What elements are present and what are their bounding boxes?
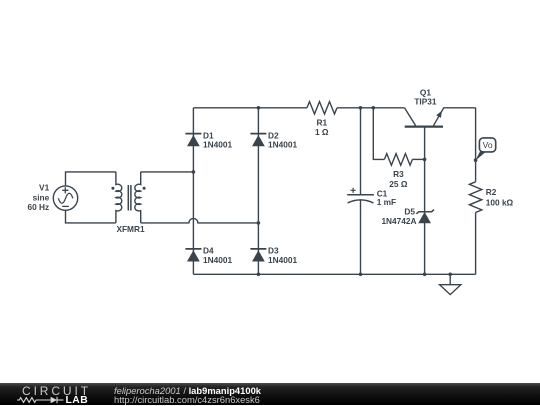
ground: [440, 274, 461, 294]
wire R2 to bottom rail: [475, 213, 477, 275]
svg-text:TIP31: TIP31: [414, 97, 437, 107]
wire secondary bottom with hop: [141, 218, 259, 223]
svg-text:R3: R3: [393, 169, 404, 179]
resistor R3: [384, 154, 412, 166]
wire bridge left vertical: [192, 108, 194, 274]
zener diode D5: [416, 210, 434, 224]
svg-text:100 kΩ: 100 kΩ: [486, 197, 514, 207]
wire right vertical to Vo: [475, 108, 477, 182]
wire top rail right: [337, 107, 405, 109]
svg-text:R2: R2: [486, 187, 497, 197]
node R3 base junction: [423, 158, 427, 162]
logo LAB: [66, 396, 89, 406]
logo schematic: [17, 396, 65, 404]
transistor Q1: [405, 108, 444, 160]
footer text line 1: [114, 385, 261, 396]
diode D4: [185, 249, 201, 262]
svg-text:1 mF: 1 mF: [377, 197, 396, 207]
wire top rail left: [193, 107, 307, 109]
diode D1: [185, 134, 201, 147]
diode D3: [250, 249, 266, 262]
wire bridge right vertical: [257, 108, 259, 274]
footer text line 2: [114, 394, 260, 405]
capacitor C1: [347, 108, 374, 274]
svg-text:D3: D3: [268, 245, 279, 255]
footer bar: [0, 383, 540, 405]
svg-text:1N4742A: 1N4742A: [381, 216, 416, 226]
node D5 bottom junction: [423, 273, 427, 277]
svg-text:1N4001: 1N4001: [268, 255, 297, 265]
node C1 bottom junction: [359, 273, 363, 277]
resistor R1: [307, 102, 337, 114]
node secondary bottom junction: [257, 221, 261, 225]
svg-text:Vo: Vo: [483, 140, 493, 150]
node D2 top junction: [257, 106, 261, 110]
node C1 top junction: [359, 106, 363, 110]
svg-text:1N4001: 1N4001: [203, 140, 232, 150]
wire R3 to base: [412, 158, 424, 160]
svg-text:1 Ω: 1 Ω: [315, 127, 329, 137]
wire V1 top: [66, 172, 116, 186]
voltage source V1: [53, 186, 77, 210]
svg-text:25 Ω: 25 Ω: [389, 179, 408, 189]
svg-text:1N4001: 1N4001: [203, 255, 232, 265]
svg-text:60 Hz: 60 Hz: [28, 202, 50, 212]
node D3 bottom junction: [257, 273, 261, 277]
wire emitter to top right: [443, 107, 475, 109]
node Vo junction: [474, 158, 478, 162]
transformer XFMR1: [111, 172, 145, 223]
svg-text:XFMR1: XFMR1: [116, 224, 145, 234]
node ground junction: [448, 273, 452, 277]
wire base down to D5: [424, 159, 426, 274]
wire bottom rail: [193, 273, 475, 275]
svg-text:V1: V1: [39, 182, 50, 192]
diode D2: [250, 134, 266, 147]
wire R3 branch: [373, 108, 384, 160]
svg-text:D4: D4: [203, 245, 214, 255]
logo CIRCUIT: [22, 385, 91, 397]
svg-text:1N4001: 1N4001: [268, 140, 297, 150]
flag Vo: [475, 138, 495, 161]
wire V1 bottom: [66, 210, 116, 223]
wire secondary top: [141, 171, 194, 173]
resistor R2: [469, 182, 481, 213]
svg-text:D5: D5: [404, 206, 415, 216]
node R3 top junction: [372, 106, 376, 110]
node secondary top junction: [192, 170, 196, 174]
